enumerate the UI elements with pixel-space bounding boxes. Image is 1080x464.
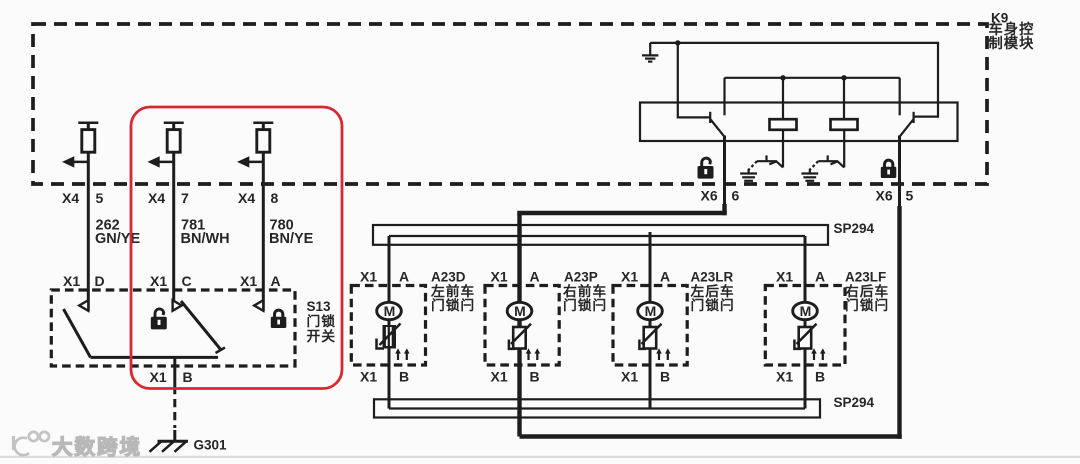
svg-text:左前车: 左前车 [430,283,475,299]
svg-text:SP294: SP294 [834,395,875,410]
svg-text:X1: X1 [360,369,377,385]
svg-text:门锁闩: 门锁闩 [691,297,735,313]
svg-text:D: D [95,273,105,289]
svg-text:A23P: A23P [564,270,598,285]
svg-text:左后车: 左后车 [690,283,735,299]
svg-text:A: A [399,269,409,285]
svg-text:A23D: A23D [431,270,466,285]
svg-text:开关: 开关 [307,328,337,344]
svg-text:A23LR: A23LR [691,270,734,285]
svg-text:大数跨境: 大数跨境 [52,435,142,459]
svg-text:门锁闩: 门锁闩 [563,297,607,313]
svg-text:5: 5 [906,188,914,204]
svg-text:M: M [645,303,657,319]
svg-text:A23LF: A23LF [845,270,886,285]
svg-text:X4: X4 [62,190,79,206]
svg-text:X1: X1 [776,269,793,285]
svg-text:X1: X1 [63,273,80,289]
svg-text:7: 7 [181,190,189,206]
svg-text:BN/YE: BN/YE [269,231,314,247]
svg-text:B: B [183,369,193,385]
svg-text:5: 5 [96,190,104,206]
svg-text:X6: X6 [701,188,718,204]
svg-text:X1: X1 [621,369,638,385]
svg-text:X1: X1 [621,269,638,285]
svg-text:SP294: SP294 [834,221,875,236]
svg-text:BN/WH: BN/WH [181,231,230,247]
svg-text:右后车: 右后车 [845,283,889,299]
svg-text:B: B [815,369,825,385]
svg-text:A: A [530,269,540,285]
svg-text:8: 8 [271,190,279,206]
svg-text:门锁闩: 门锁闩 [431,297,475,313]
svg-text:GN/YE: GN/YE [95,231,140,247]
svg-text:X4: X4 [238,190,255,206]
svg-text:A: A [271,273,281,289]
svg-text:X1: X1 [491,369,508,385]
svg-text:X1: X1 [150,369,167,385]
svg-text:A: A [815,269,825,285]
svg-text:M: M [384,303,396,319]
svg-text:C: C [182,273,192,289]
svg-text:B: B [530,369,540,385]
svg-text:X1: X1 [776,369,793,385]
svg-text:A: A [660,269,670,285]
svg-text:X1: X1 [491,269,508,285]
svg-text:X6: X6 [876,188,893,204]
svg-text:X1: X1 [150,273,167,289]
svg-text:制模块: 制模块 [989,34,1035,52]
svg-text:G301: G301 [194,438,228,453]
svg-text:M: M [800,303,812,319]
svg-text:X1: X1 [360,269,377,285]
svg-text:6: 6 [732,188,740,204]
svg-text:门锁: 门锁 [307,313,337,329]
svg-text:X4: X4 [148,190,165,206]
svg-text:门锁闩: 门锁闩 [845,297,889,313]
svg-text:X1: X1 [240,273,257,289]
svg-text:右前车: 右前车 [563,283,607,299]
svg-text:B: B [399,369,409,385]
svg-text:B: B [660,369,670,385]
svg-text:M: M [514,303,526,319]
svg-text:S13: S13 [307,299,332,314]
